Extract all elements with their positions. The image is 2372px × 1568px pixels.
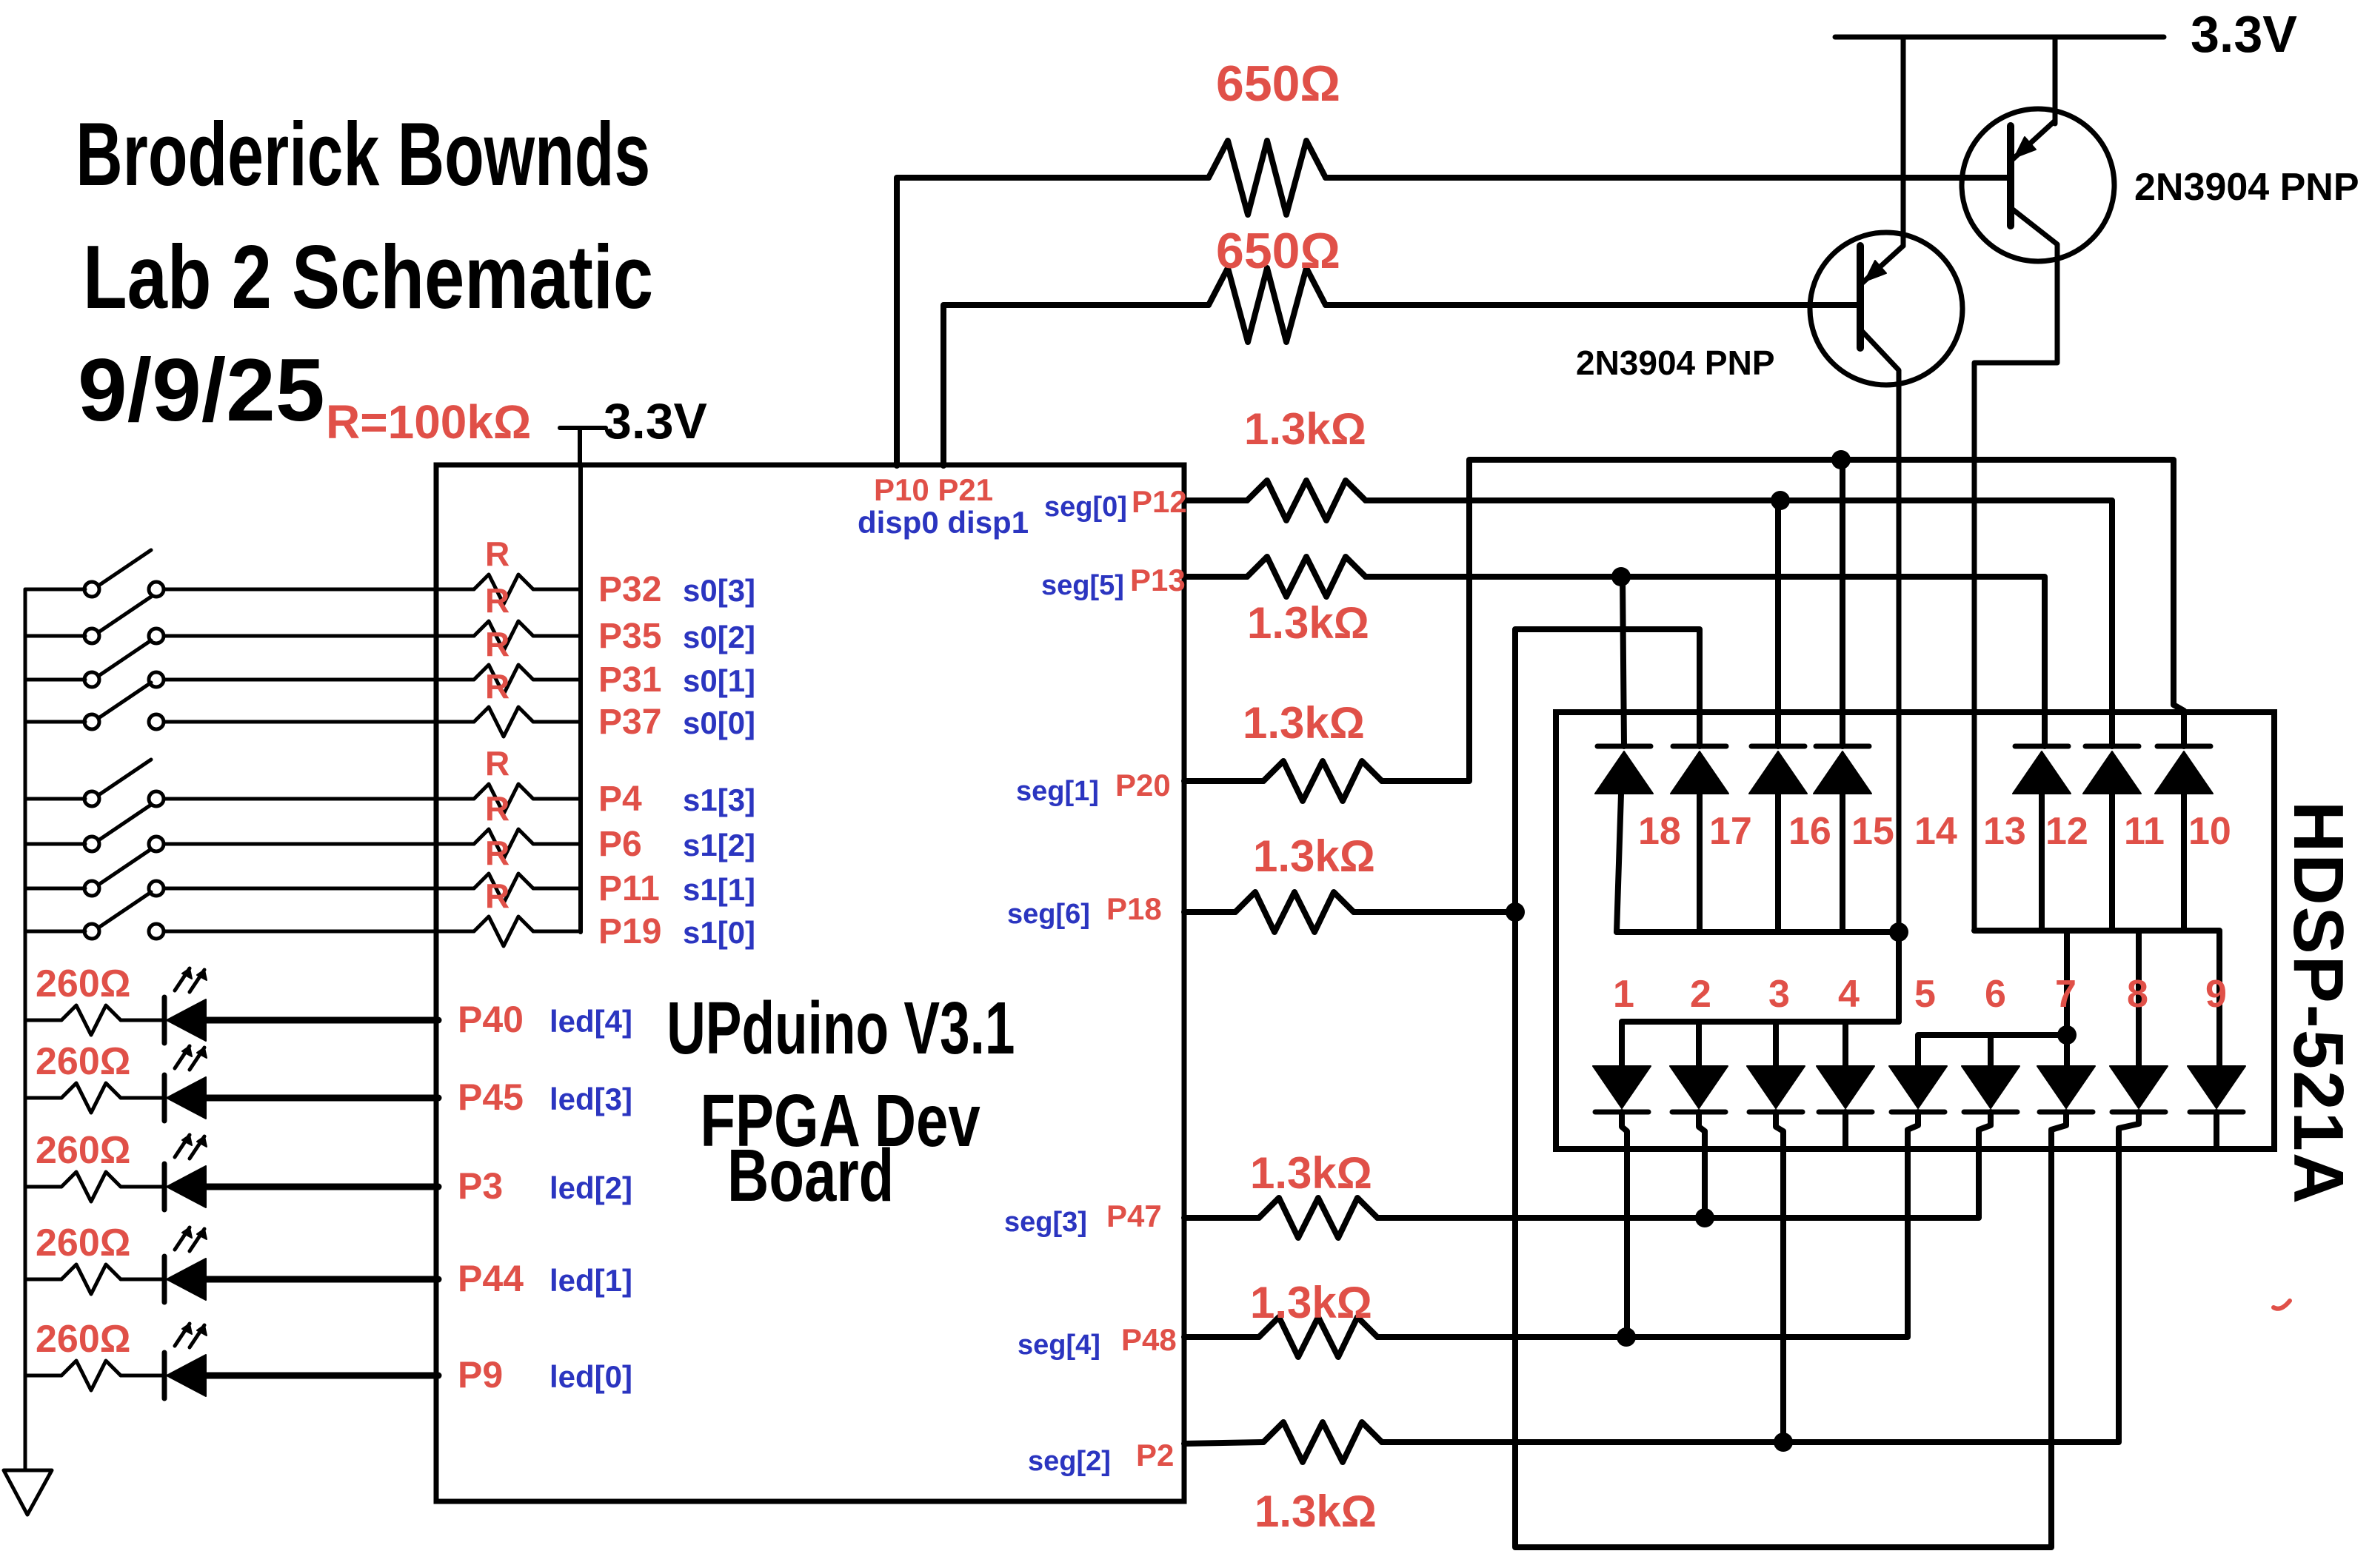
svg-text:12: 12 [2045,810,2088,853]
svg-text:1.3kΩ: 1.3kΩ [1255,1487,1377,1536]
display diode pin 15 triangle [1814,751,1871,794]
wire seg6 riser to pin17 link and line D [1515,629,2051,1547]
resistor 260Ω row led[0] [61,1361,121,1390]
display diode pin 5 triangle [1889,1066,1947,1108]
svg-text:260Ω: 260Ω [36,962,130,1005]
wire drop to diode 2 top [1696,1022,1702,1066]
wire seg[4] line B [1377,1135,1908,1337]
node lower anode bus pins 5-6 [1918,1035,2067,1066]
svg-text:6: 6 [1985,973,2006,1016]
switch SW5 right contact [149,791,164,806]
display diode pin 10 triangle [2155,751,2213,794]
svg-text:3.3V: 3.3V [2191,5,2297,63]
display diode pin 7 triangle [2037,1066,2095,1108]
resistor 1.3kΩ seg[0] [1247,480,1366,520]
svg-text:1.3kΩ: 1.3kΩ [1250,1278,1372,1327]
wire P21 to resistor 650-2 [943,305,1209,466]
switch SW8 lever [98,892,151,928]
wire seg[1] riser and top run (node seg1) [1382,460,2184,781]
display diode pin 1 cathode bar [1595,1110,1648,1115]
transistor Q1 base bar [1857,246,1864,348]
svg-text:P31: P31 [598,660,661,700]
svg-text:R: R [485,581,510,620]
svg-text:R: R [485,625,510,663]
power rail 3.3V (top right) [1835,35,2164,40]
switch SW6 lever [98,805,151,840]
wire switch SW6 to resistor [164,842,474,846]
svg-text:P13: P13 [1130,563,1186,597]
display diode pin 11 cathode bar [2085,744,2139,749]
svg-text:7: 7 [2055,973,2077,1016]
switch SW4 left contact [84,714,99,729]
FPGA board U1 UPduino V3.1 outline [436,465,1184,1501]
junction seg[1]/pin15 [1831,450,1851,469]
svg-text:P48: P48 [1121,1322,1177,1357]
display diode pin 12 cathode bar [2015,744,2068,749]
display diode pin 9 cathode bar [2190,1110,2243,1115]
wire switch SW4 stub from bus [25,720,85,724]
wire bus to resistor led row 3 [25,1096,61,1100]
svg-text:9/9/25: 9/9/25 [78,341,325,440]
switch SW1 left contact [84,582,99,597]
wire diode 6 cathode to line A end [1979,1112,1991,1135]
switch SW7 right contact [149,881,164,896]
svg-text:led[0]: led[0] [549,1359,632,1394]
wire diode pin 10 anode to right common bus [2181,794,2187,931]
wire resistor row 8 to 3.3V bus [533,930,581,934]
svg-text:seg[5]: seg[5] [1041,570,1124,601]
switch SW2 lever [98,597,151,632]
wire switch SW8 to resistor [164,930,474,934]
switch SW5 lever [98,760,151,795]
transistor Q2 base bar [2007,126,2014,226]
wire diode 4 cathode to box edge [1843,1112,1848,1149]
transistor Q2 2N3904 PNP circle [1962,109,2114,261]
power 3.3V rail symbol (left) [560,426,606,430]
svg-text:Broderick Bownds: Broderick Bownds [76,104,650,205]
wire seg[2] line C [1382,1130,2119,1442]
svg-text:8: 8 [2127,973,2148,1016]
svg-text:2N3904 PNP: 2N3904 PNP [1576,344,1775,382]
svg-text:13: 13 [1983,810,2026,853]
svg-text:P40: P40 [458,999,524,1040]
resistor 260Ω row led[2] [61,1172,121,1202]
svg-text:3.3V: 3.3V [604,393,707,449]
resistor 260Ω row led[4] [61,1005,121,1035]
wire LED D2 to FPGA pin [206,1184,438,1190]
LED D0 triangle [167,1355,206,1396]
svg-text:HDSP-521A: HDSP-521A [2279,801,2358,1205]
wire diode 2 cathode to line A [1699,1112,1705,1218]
junction pin14 line / left bus [1889,922,1908,942]
svg-text:P20: P20 [1115,768,1171,803]
junction seg[4]/diode1 [1617,1327,1636,1347]
wire diode pin 18 anode to left common bus [1617,794,1621,932]
wire switch SW2 to resistor [164,634,474,638]
LED D3 cathode bar [162,1075,167,1121]
display diode pin 11 triangle [2083,751,2141,794]
switch SW6 left contact [84,837,99,851]
display diode pin 2 cathode bar [1672,1110,1725,1115]
LED D4 triangle [167,999,206,1041]
display diode pin 10 cathode bar [2157,744,2211,749]
switch SW8 left contact [84,924,99,939]
wire seg[0] P12 from FPGA [1184,497,1247,503]
junction seg[0]/pin16 [1771,491,1790,510]
wire seg[6] to riser (node seg6) [1354,909,1515,915]
LED D2 emission arrows [175,1135,190,1157]
wire resistor to LED D0 [121,1374,164,1378]
node right common bus (pin 13 digit) [1974,931,2219,1066]
wire resistor row 6 to 3.3V bus [533,842,581,846]
switch SW4 lever [98,683,151,718]
wire switch SW6 stub from bus [25,842,85,846]
svg-text:R: R [485,535,510,573]
LED D1 triangle [167,1259,206,1300]
display diode pin 8 triangle [2110,1066,2168,1108]
wire resistor row 1 to 3.3V bus [533,588,581,592]
wire resistor to LED D2 [121,1185,164,1189]
wire bus to resistor led row 0 [25,1374,61,1378]
svg-text:P12: P12 [1132,484,1187,519]
wire switch SW1 stub from bus [25,588,85,592]
svg-text:seg[2]: seg[2] [1028,1446,1111,1477]
LED D1 cathode bar [162,1256,167,1302]
junction seg[2]/diode3 [1774,1433,1793,1452]
svg-text:disp0 disp1: disp0 disp1 [858,505,1029,540]
svg-text:R: R [485,667,510,706]
svg-text:led[1]: led[1] [549,1263,632,1298]
wire resistor to LED D4 [121,1019,164,1022]
svg-text:P44: P44 [458,1258,524,1299]
switch SW3 left contact [84,672,99,687]
switch SW1 lever [98,550,151,586]
display diode pin 9 triangle [2188,1066,2245,1108]
resistor 650Ω lower [1209,268,1326,342]
wire seg[3] line A [1377,1135,1979,1218]
svg-text:s1[0]: s1[0] [683,915,755,950]
svg-text:s1[1]: s1[1] [683,872,755,907]
wire switch SW5 to resistor [164,797,474,801]
display diode pin 17 triangle [1671,751,1728,794]
node lower anode bus pins 1-4 [1622,1022,1899,1066]
wire bus to resistor led row 2 [25,1185,61,1189]
display diode pin 5 cathode bar [1891,1110,1945,1115]
wire diode pin 12 anode to right common bus [2039,794,2045,931]
switch SW1 right contact [149,582,164,597]
svg-text:R: R [485,834,510,872]
wire switch SW8 stub from bus [25,930,85,934]
svg-text:P9: P9 [458,1354,503,1396]
resistor R pull-up row 1 [474,574,533,604]
svg-text:4: 4 [1838,973,1860,1016]
wire resistor row 7 to 3.3V bus [533,887,581,891]
display diode pin 2 triangle [1670,1066,1728,1108]
switch SW2 right contact [149,629,164,643]
svg-text:UPduino V3.1: UPduino V3.1 [667,987,1015,1070]
svg-text:16: 16 [1788,810,1831,853]
wire seg[4] P48 from FPGA [1184,1334,1259,1340]
resistor R pull-up row 5 [474,784,533,814]
svg-text:P2: P2 [1136,1438,1174,1472]
display diode pin 4 triangle [1817,1066,1874,1108]
wire resistor 650-1 to Q2 base [1326,175,2008,181]
switch SW7 left contact [84,881,99,896]
resistor R pull-up row 3 [474,665,533,694]
wire seg[6] P18 from FPGA [1184,909,1235,915]
svg-text:260Ω: 260Ω [36,1040,130,1083]
ground symbol [4,1470,52,1515]
display diode pin 3 cathode bar [1749,1110,1803,1115]
wire seg[5] to display (node seg5) [1366,577,2045,746]
svg-text:s0[2]: s0[2] [683,620,755,654]
svg-text:R: R [485,789,510,828]
node left common bus (pin 14 digit) [1617,929,1899,935]
svg-text:5: 5 [1914,973,1936,1016]
transistor Q1 2N3904 PNP circle [1810,232,1962,385]
resistor 260Ω row led[3] [61,1083,121,1113]
resistor R pull-up row 2 [474,621,533,651]
switch SW8 right contact [149,924,164,939]
svg-text:P18: P18 [1106,891,1162,926]
display diode pin 3 triangle [1747,1066,1805,1108]
resistor R pull-up row 7 [474,874,533,903]
wire rail to Q1 emitter [1901,37,1906,246]
wire seg[5] drop to diode pin18 [1623,577,1624,746]
switch SW3 right contact [149,672,164,687]
display diode pin 18 triangle [1595,751,1653,794]
svg-text:s0[1]: s0[1] [683,663,755,698]
LED D3 triangle [167,1077,206,1119]
svg-text:1.3kΩ: 1.3kΩ [1243,698,1365,748]
LED D4 emission arrows [175,968,190,991]
LED D0 emission arrows [175,1324,190,1346]
wire seg[0] drop to diode pin16 [1775,500,1781,746]
transistor Q1 emitter arrow (PNP) [1865,261,1886,281]
wire resistor row 3 to 3.3V bus [533,678,581,682]
wire seg[2] P2 from FPGA [1184,1442,1263,1444]
display diode pin 6 cathode bar [1964,1110,2017,1115]
svg-text:seg[1]: seg[1] [1016,776,1099,807]
svg-text:15: 15 [1851,810,1894,853]
wire switch SW2 stub from bus [25,634,85,638]
junction bus56 / pin7 feed [2057,1025,2077,1045]
svg-text:R: R [485,877,510,915]
resistor R pull-up row 6 [474,829,533,859]
display diode pin 12 triangle [2013,751,2071,794]
wire LED D4 to FPGA pin [206,1017,438,1024]
wire rail to Q2 emitter [2053,37,2058,124]
svg-text:seg[6]: seg[6] [1007,899,1090,930]
wire right bus feed to diode 8 [2136,931,2142,1066]
svg-text:seg[0]: seg[0] [1044,492,1127,523]
svg-text:P45: P45 [458,1076,524,1118]
wire LED D1 to FPGA pin [206,1276,438,1283]
wire diode 1 cathode to line B [1622,1112,1627,1337]
wire resistor row 4 to 3.3V bus [533,720,581,724]
svg-text:260Ω: 260Ω [36,1222,130,1264]
wire resistor to LED D3 [121,1096,164,1100]
wire LED D0 to FPGA pin [206,1373,438,1379]
svg-text:s0[0]: s0[0] [683,706,755,740]
svg-text:P32: P32 [598,570,661,609]
wire switch SW1 to resistor [164,588,474,592]
resistor 1.3kΩ seg[3] [1259,1198,1377,1238]
wire P10 to resistor 650-1 [897,178,1209,466]
transistor Q1 collector [1862,332,1899,1022]
switch SW7 lever [98,849,151,885]
LED D4 cathode bar [162,997,167,1043]
resistor 650Ω upper [1209,141,1326,215]
wire diode 5 cathode to line B end [1908,1112,1918,1135]
svg-text:650Ω: 650Ω [1216,223,1340,279]
LED D2 cathode bar [162,1164,167,1210]
svg-text:1.3kΩ: 1.3kΩ [1244,404,1366,454]
display diode pin 8 cathode bar [2112,1110,2165,1115]
resistor 1.3kΩ seg[1] [1263,761,1382,801]
pull-up bus wire (3.3V rail inside board) [578,466,583,932]
wire seg[0] to display (node seg0) [1366,500,2112,746]
LED D0 cathode bar [162,1353,167,1398]
switch SW4 right contact [149,714,164,729]
display diode pin 17 cathode bar [1673,744,1726,749]
svg-text:260Ω: 260Ω [36,1318,130,1361]
wire diode 3 cathode to line C [1776,1112,1783,1442]
LED D3 emission arrows [175,1046,190,1068]
wire right bus feed to diode 7 [2064,931,2070,1066]
svg-text:seg[3]: seg[3] [1004,1207,1087,1238]
resistor 1.3kΩ seg[4] [1259,1317,1377,1357]
switch SW2 left contact [84,629,99,643]
svg-text:1.3kΩ: 1.3kΩ [1247,598,1369,648]
svg-text:s0[3]: s0[3] [683,573,755,608]
svg-text:14: 14 [1914,810,1957,853]
svg-text:P47: P47 [1106,1199,1162,1233]
wire switch SW3 stub from bus [25,678,85,682]
wire seg[1] P20 from FPGA [1184,778,1263,784]
wire diode 8 cathode to line C end [2119,1112,2139,1133]
wire resistor row 2 to 3.3V bus [533,634,581,638]
svg-text:led[3]: led[3] [549,1082,632,1116]
wire resistor to LED D1 [121,1278,164,1281]
wire seg[1] drop to diode pin15 [1840,460,1845,746]
transistor Q1 emitter [1862,246,1903,283]
switch SW6 right contact [149,837,164,851]
svg-text:1.3kΩ: 1.3kΩ [1253,831,1375,881]
svg-text:P3: P3 [458,1165,503,1207]
display diode pin 15 cathode bar [1816,744,1869,749]
wire diode pin 11 anode to right common bus [2109,794,2115,931]
wire diode 7 cathode to line D end [2051,1112,2066,1135]
junction seg[6]/riser [1506,902,1525,922]
wire LED D3 to FPGA pin [206,1095,438,1102]
svg-text:P4: P4 [598,780,642,819]
wire drop to diode 3 top [1773,1022,1779,1066]
svg-text:R: R [485,744,510,783]
wire diode pin 16 anode to left common bus [1775,794,1781,932]
junction seg[5]/pin18 [1611,567,1631,586]
wire drop to diode 4 top [1843,1022,1848,1066]
wire pin14 vertical continues to lower anode bus [1896,932,1902,1022]
svg-text:3: 3 [1768,973,1790,1016]
display diode pin 1 triangle [1593,1066,1651,1108]
display diode pin 4 cathode bar [1819,1110,1872,1115]
wire diode 9 cathode to box edge [2214,1112,2219,1149]
wire drop to diode 6 top [1988,1035,1994,1066]
svg-text:Lab 2 Schematic: Lab 2 Schematic [83,227,653,328]
wire switch SW3 to resistor [164,678,474,682]
wire diode pin 17 anode to left common bus [1697,794,1703,932]
resistor 1.3kΩ seg[5] [1247,557,1366,597]
wire seg[5] P13 from FPGA [1184,574,1247,580]
wire bus to resistor led row 4 [25,1019,61,1022]
stray red mark [2274,1301,2290,1309]
svg-text:seg[4]: seg[4] [1018,1330,1100,1361]
display diode pin 7 cathode bar [2039,1110,2093,1115]
wire switch SW4 to resistor [164,720,474,724]
wire switch SW7 stub from bus [25,887,85,891]
wire bus to resistor led row 1 [25,1278,61,1281]
wire switch SW5 stub from bus [25,797,85,801]
display diode pin 18 cathode bar [1597,744,1651,749]
display diode pin 6 triangle [1962,1066,2019,1108]
svg-text:R=100kΩ: R=100kΩ [326,395,531,449]
svg-text:Board: Board [727,1135,894,1218]
svg-text:P37: P37 [598,703,661,742]
svg-text:P19: P19 [598,912,661,951]
display diode pin 16 cathode bar [1751,744,1805,749]
wire resistor 650-2 to Q1 base [1326,302,1858,308]
svg-text:1: 1 [1613,973,1634,1016]
resistor 260Ω row led[1] [61,1264,121,1294]
svg-text:1.3kΩ: 1.3kΩ [1250,1148,1372,1198]
svg-text:10: 10 [2188,810,2231,853]
svg-text:11: 11 [2124,810,2165,853]
wire diode pin 15 anode to left common bus [1840,794,1845,932]
svg-text:s1[2]: s1[2] [683,828,755,862]
wire switch SW7 to resistor [164,887,474,891]
resistor R pull-up row 8 [474,917,533,946]
svg-text:led[2]: led[2] [549,1170,632,1205]
wire seg[3] P47 from FPGA [1184,1215,1259,1221]
svg-text:P10 P21: P10 P21 [874,472,993,507]
LED D1 emission arrows [175,1227,190,1250]
wire switch common bus (left vertical) [24,589,27,1470]
resistor R pull-up row 4 [474,707,533,737]
svg-text:17: 17 [1709,810,1752,853]
svg-text:2: 2 [1690,973,1711,1016]
svg-text:led[4]: led[4] [549,1004,632,1039]
svg-text:2N3904 PNP: 2N3904 PNP [2134,166,2359,209]
wire resistor row 5 to 3.3V bus [533,797,581,801]
svg-text:9: 9 [2205,973,2227,1016]
svg-text:650Ω: 650Ω [1216,56,1340,112]
svg-text:s1[3]: s1[3] [683,783,755,817]
svg-text:260Ω: 260Ω [36,1129,130,1172]
switch SW5 left contact [84,791,99,806]
svg-text:P11: P11 [598,869,660,908]
svg-text:P6: P6 [598,825,642,864]
LED D2 triangle [167,1166,206,1207]
display HDSP-521A outline [1556,712,2274,1149]
transistor Q2 collector [1974,210,2057,931]
transistor Q2 emitter arrow (PNP) [2014,137,2036,158]
switch SW3 lever [98,640,151,676]
transistor Q2 emitter [2013,121,2055,159]
display diode pin 16 triangle [1749,751,1807,794]
resistor 1.3kΩ seg[2] [1263,1422,1382,1462]
svg-text:P35: P35 [598,617,661,656]
